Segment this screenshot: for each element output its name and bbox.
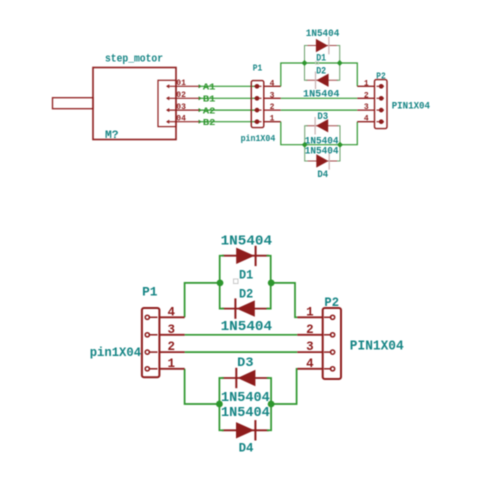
- svg-text:1N5404: 1N5404: [221, 390, 270, 406]
- svg-text:D1: D1: [316, 53, 326, 64]
- svg-text:pin1X04: pin1X04: [241, 133, 276, 144]
- svg-text:4: 4: [306, 357, 314, 371]
- svg-text:PIN1X04: PIN1X04: [350, 339, 404, 355]
- svg-text:4: 4: [270, 79, 275, 88]
- svg-text:B2: B2: [203, 117, 216, 128]
- svg-text:step_motor: step_motor: [105, 54, 163, 66]
- svg-text:02: 02: [176, 91, 186, 100]
- svg-text:D1: D1: [239, 268, 253, 283]
- svg-text:2: 2: [306, 323, 314, 337]
- svg-text:04: 04: [176, 114, 186, 123]
- svg-text:2: 2: [168, 340, 176, 354]
- svg-text:A1: A1: [203, 82, 216, 93]
- svg-text:pin1X04: pin1X04: [90, 345, 142, 360]
- svg-text:D2: D2: [239, 287, 253, 302]
- svg-text:1N5404: 1N5404: [221, 233, 273, 249]
- svg-text:3: 3: [364, 103, 369, 112]
- svg-text:1N5404: 1N5404: [303, 89, 340, 100]
- svg-text:03: 03: [176, 103, 186, 112]
- svg-text:4: 4: [364, 115, 369, 124]
- svg-text:B1: B1: [203, 94, 216, 105]
- svg-text:3: 3: [270, 91, 275, 100]
- svg-text:D2: D2: [316, 66, 326, 77]
- svg-text:1: 1: [364, 79, 369, 88]
- svg-text:D4: D4: [317, 170, 328, 181]
- svg-text:1N5404: 1N5404: [221, 405, 270, 421]
- svg-text:P1: P1: [253, 63, 263, 73]
- svg-text:PIN1X04: PIN1X04: [392, 102, 430, 113]
- svg-text:01: 01: [176, 79, 186, 88]
- svg-text:1N5404: 1N5404: [221, 319, 273, 335]
- svg-text:D3: D3: [237, 355, 254, 370]
- svg-text:A2: A2: [203, 105, 216, 116]
- svg-text:2: 2: [270, 103, 275, 112]
- svg-text:3: 3: [306, 340, 314, 354]
- svg-text:D3: D3: [317, 112, 328, 123]
- svg-text:1: 1: [306, 305, 314, 319]
- svg-text:3: 3: [168, 323, 176, 337]
- svg-text:1: 1: [168, 357, 176, 371]
- svg-text:4: 4: [168, 305, 176, 319]
- svg-text:D4: D4: [239, 441, 254, 456]
- svg-text:1: 1: [270, 115, 275, 124]
- svg-text:M?: M?: [105, 130, 119, 142]
- svg-text:1N5404: 1N5404: [306, 29, 340, 40]
- svg-text:2: 2: [364, 91, 369, 100]
- svg-text:1N5404: 1N5404: [305, 147, 339, 158]
- svg-text:P1: P1: [142, 284, 158, 299]
